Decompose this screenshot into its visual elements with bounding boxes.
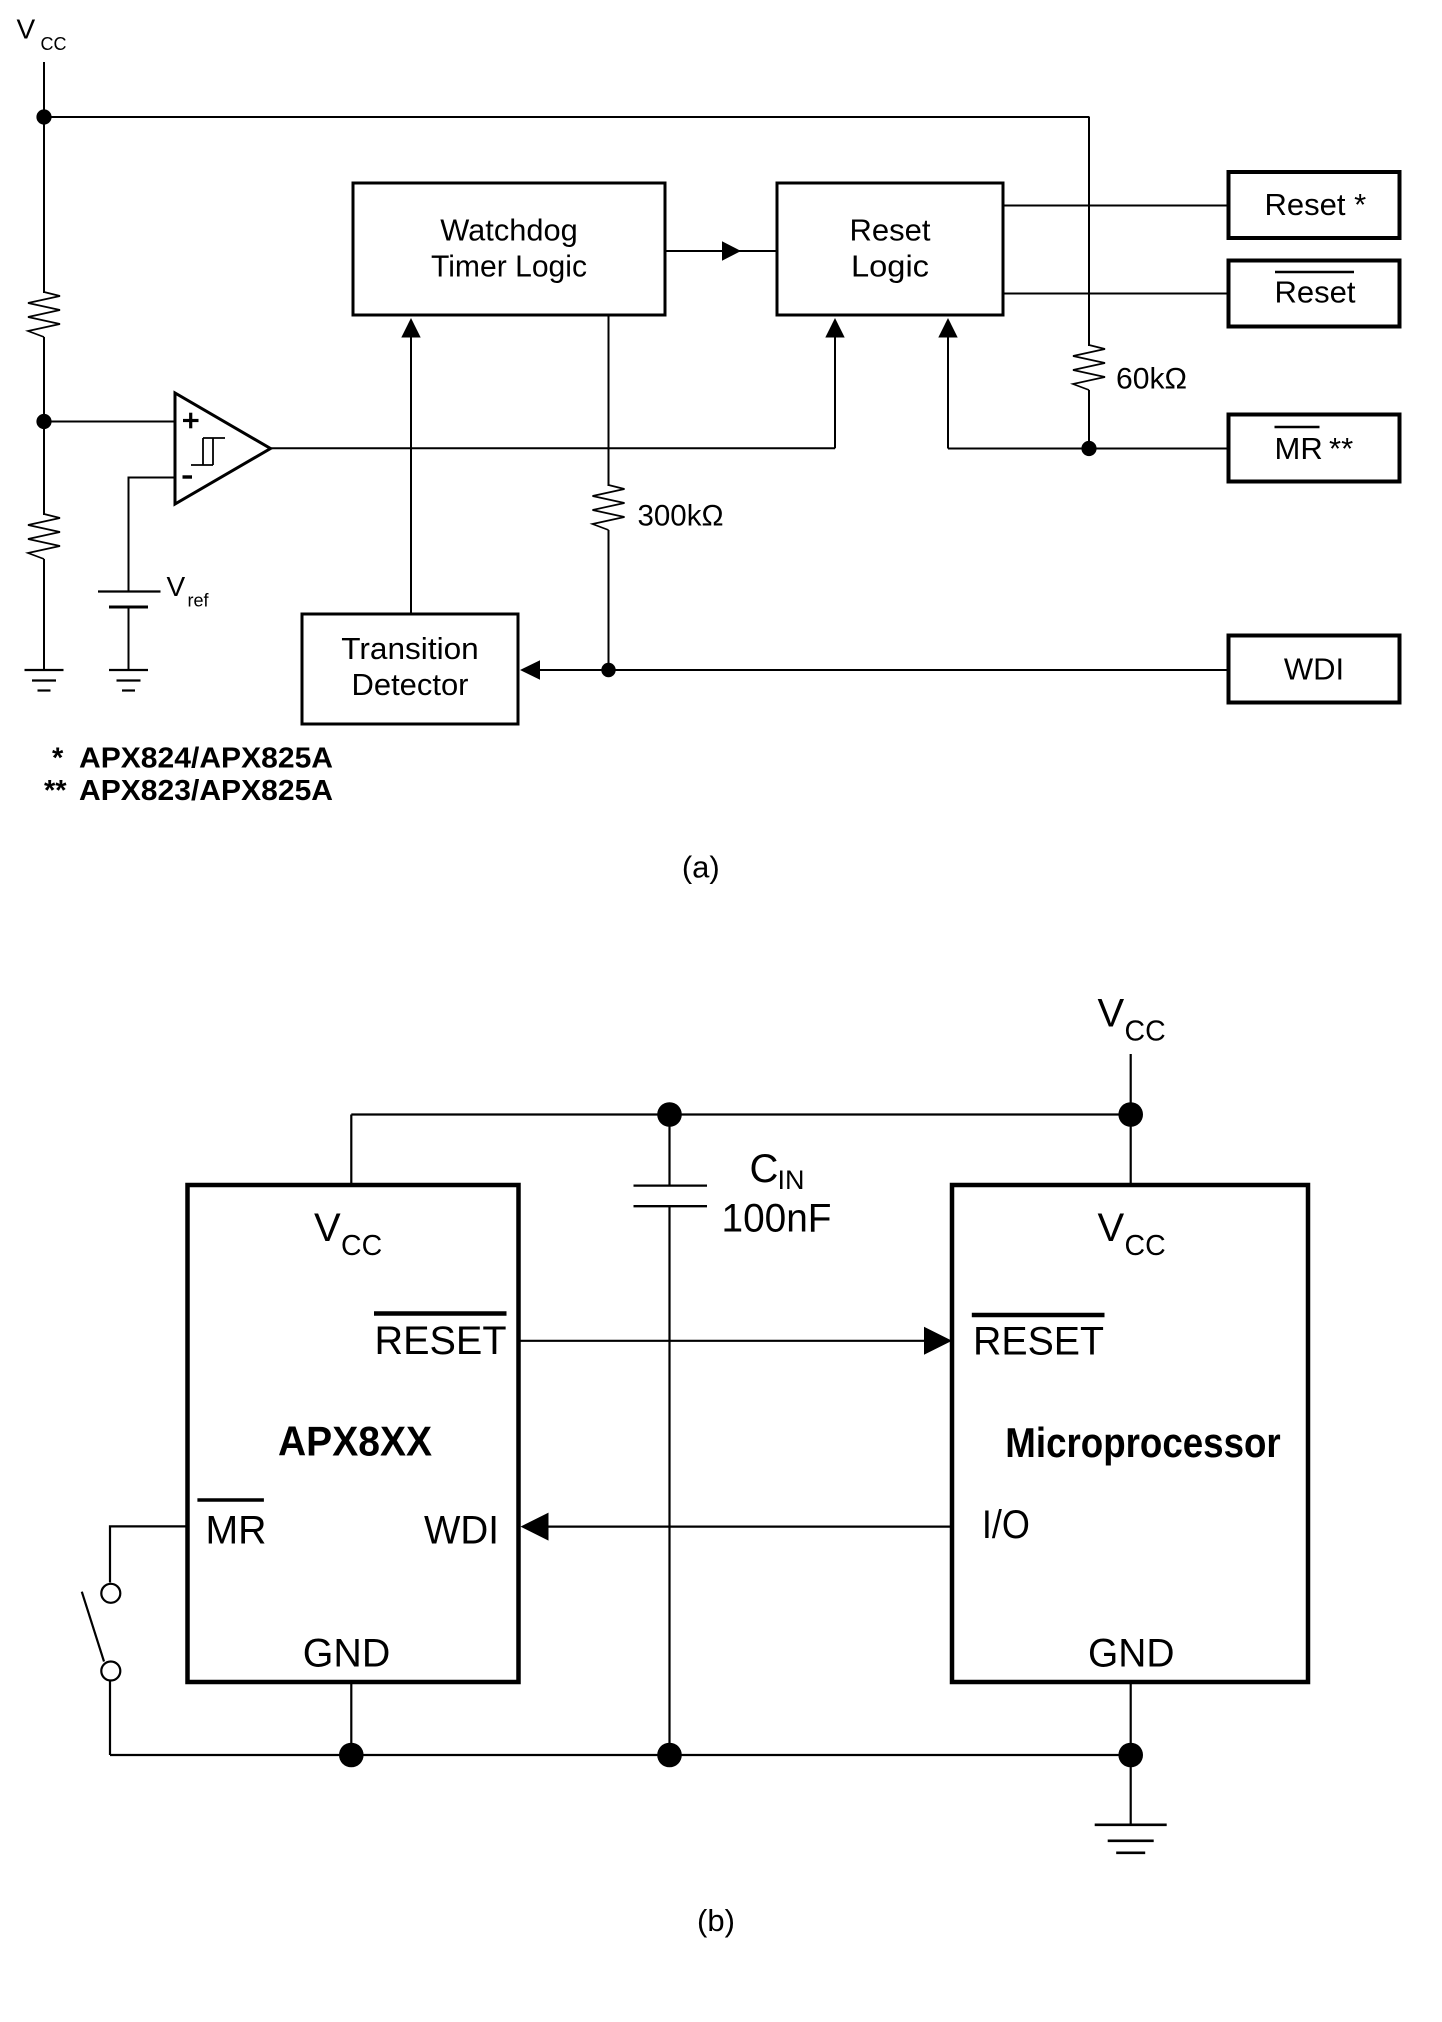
wire riser MR to Reset Logic with arrowhead (938, 318, 957, 449)
footnote line 1 (52, 742, 333, 774)
svg-text:APX8XX: APX8XX (278, 1418, 432, 1465)
wire WDI with arrowhead into Transition Detector (520, 660, 1229, 679)
svg-text:APX824/APX825A: APX824/APX825A (79, 742, 333, 774)
node capacitor bottom junction (657, 1743, 682, 1768)
resistor 300k (593, 485, 625, 530)
svg-text:CC: CC (341, 1230, 382, 1262)
hysteresis symbol inside U1 (191, 438, 225, 465)
svg-text:V: V (167, 571, 186, 602)
wire 60k bottom (1088, 390, 1090, 449)
wire VCC top rail (44, 116, 1090, 118)
wire APX8XX VCC lead (350, 1115, 352, 1186)
label Vref (167, 571, 210, 611)
ground Vref (109, 670, 148, 691)
svg-text:APX823/APX825A: APX823/APX825A (79, 775, 333, 807)
op-amp comparator U1 (175, 393, 271, 504)
wire 60k top from rail (1088, 117, 1090, 346)
svg-text:V: V (314, 1206, 341, 1250)
box APX8XX (188, 1185, 519, 1682)
wire tap to comparator plus input (44, 421, 175, 423)
battery Vref (98, 592, 161, 608)
box Reset* output (1229, 172, 1400, 238)
node microprocessor GND junction (1118, 1743, 1143, 1768)
box WDI input (1229, 636, 1400, 703)
svg-text:GND: GND (1088, 1632, 1175, 1676)
wire Reset Logic to Reset* (1003, 205, 1229, 207)
node MR 60k junction (1081, 441, 1096, 456)
wire VCC rail (b) (351, 1113, 1130, 1115)
svg-text:WDI: WDI (424, 1509, 499, 1553)
svg-text:60kΩ: 60kΩ (1116, 363, 1187, 396)
wire ground rail (b) (110, 1754, 1131, 1756)
svg-text:**: ** (1329, 431, 1353, 466)
node VCC junction (36, 109, 51, 124)
net VCC label (b) (1098, 992, 1166, 1048)
svg-text:V: V (1098, 992, 1125, 1036)
svg-text:(b): (b) (697, 1903, 735, 1938)
ground divider (25, 670, 64, 691)
box Reset-bar output (1229, 261, 1400, 327)
wire comparator minus input (129, 478, 176, 592)
wire 300k bottom (608, 530, 610, 670)
svg-text:V: V (17, 14, 36, 45)
svg-text:I/O: I/O (982, 1503, 1030, 1547)
footnote line 2 (44, 775, 333, 807)
node divider tap (36, 414, 51, 429)
net VCC label (a) (17, 14, 67, 55)
svg-text:**: ** (44, 775, 67, 807)
svg-text:Microprocessor: Microprocessor (1005, 1419, 1280, 1466)
wire divider bottom (43, 559, 45, 670)
svg-text:100nF: 100nF (722, 1197, 832, 1241)
svg-text:IN: IN (778, 1165, 805, 1195)
svg-text:ref: ref (188, 591, 210, 611)
wire comparator output (271, 447, 836, 449)
wire to ground symbol (b) (1130, 1755, 1132, 1825)
node capacitor top junction (657, 1102, 682, 1127)
wire VCC vertical drop (43, 62, 45, 293)
node VCC junction (b) (1118, 1102, 1143, 1127)
svg-text:CC: CC (1125, 1230, 1166, 1262)
node WDI junction (601, 663, 615, 677)
svg-text:CC: CC (1125, 1016, 1166, 1048)
svg-text:GND: GND (303, 1632, 391, 1676)
svg-text:RESET: RESET (375, 1319, 507, 1363)
svg-text:Reset: Reset (1275, 275, 1356, 310)
node APX GND junction (339, 1743, 364, 1768)
capacitor CIN (634, 1115, 708, 1756)
wire MR horizontal (948, 448, 1229, 450)
svg-text:Transition: Transition (341, 631, 479, 666)
wire RESET to microprocessor with arrowhead (521, 1327, 953, 1355)
box Transition Detector (302, 614, 518, 724)
svg-text:Reset: Reset (850, 213, 931, 248)
wire Watchdog output to Reset Logic with arrowhead (665, 241, 777, 260)
label CIN (750, 1147, 805, 1195)
svg-text:V: V (1098, 1206, 1125, 1250)
box Watchdog Timer Logic (353, 183, 665, 315)
wire MR lead to switch (110, 1526, 188, 1582)
svg-text:Timer Logic: Timer Logic (431, 249, 587, 284)
svg-text:Watchdog: Watchdog (440, 213, 578, 248)
svg-text:*: * (52, 742, 64, 774)
svg-text:Detector: Detector (352, 667, 469, 702)
wire battery to ground (128, 607, 130, 670)
wire Watchdog to 300k (608, 315, 610, 486)
box Microprocessor (952, 1185, 1308, 1682)
svg-text:300kΩ: 300kΩ (638, 500, 724, 533)
svg-text:RESET: RESET (973, 1320, 1104, 1364)
wire switch to ground rail (109, 1681, 111, 1755)
box Reset Logic (777, 183, 1003, 315)
wire riser comparator output to Reset Logic with arrowhead (825, 318, 844, 448)
wire I/O to WDI with arrowhead (521, 1513, 953, 1541)
svg-text:(a): (a) (682, 850, 720, 885)
svg-text:Reset *: Reset * (1265, 187, 1367, 222)
ground symbol (b) (1095, 1825, 1167, 1853)
wire Reset Logic to Reset-bar (1003, 293, 1229, 295)
svg-text:C: C (750, 1147, 779, 1191)
svg-text:MR: MR (1275, 431, 1323, 466)
switch S1 (82, 1584, 121, 1681)
svg-text:WDI: WDI (1284, 652, 1344, 687)
svg-text:MR: MR (206, 1509, 267, 1553)
wire APX8XX GND lead (350, 1682, 352, 1755)
wire divider middle (43, 337, 45, 515)
wire riser Transition Detector to Watchdog with arrowhead (401, 318, 420, 614)
resistor R2 lower divider (28, 514, 60, 559)
wire VCC stub down (1130, 1054, 1132, 1185)
wire microprocessor GND lead (1130, 1682, 1132, 1755)
box MR input (1229, 415, 1400, 482)
resistor R1 upper divider (28, 292, 60, 337)
svg-text:Logic: Logic (851, 249, 929, 284)
resistor 60k (1073, 345, 1105, 390)
svg-text:CC: CC (41, 34, 67, 54)
